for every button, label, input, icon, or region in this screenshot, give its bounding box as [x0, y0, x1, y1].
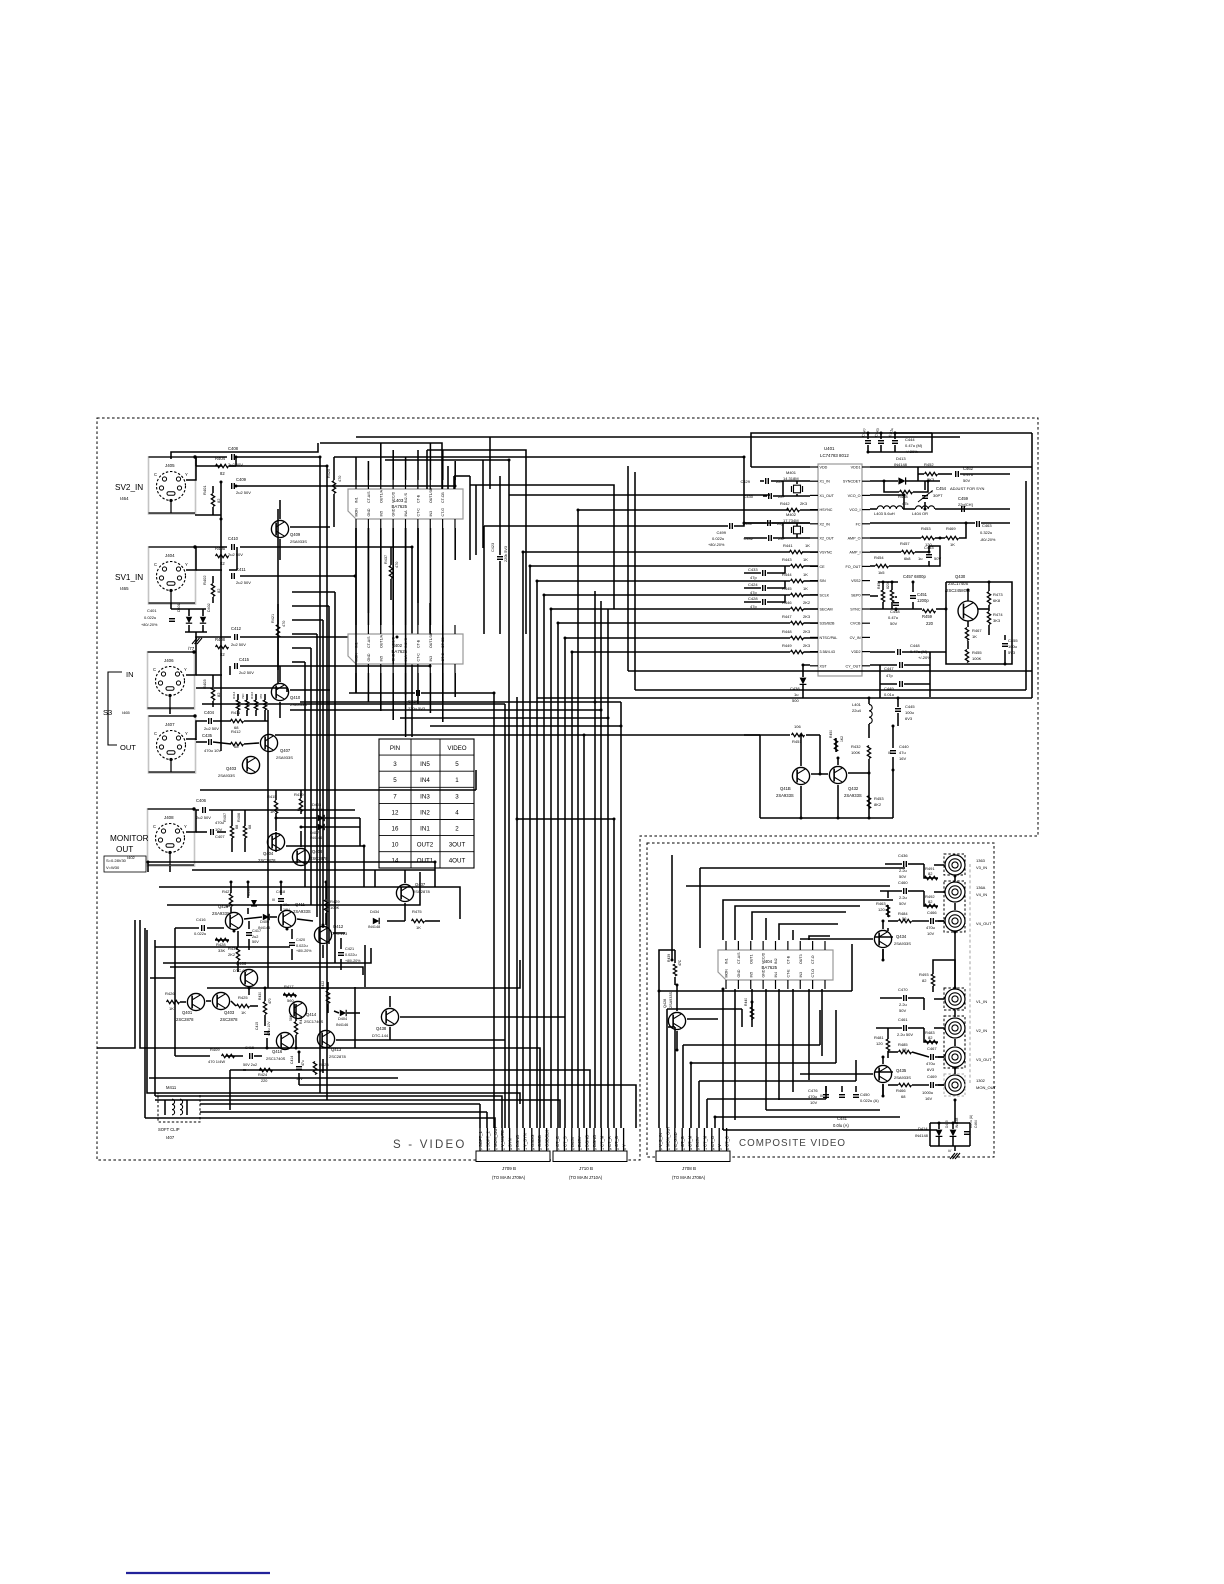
svg-text:OSDB: OSDB [537, 1135, 542, 1147]
svg-text:R432: R432 [851, 744, 861, 749]
svg-text:D45V: D45V [695, 1136, 700, 1147]
connector J708 B [656, 1126, 730, 1180]
svg-text:R421: R421 [271, 614, 275, 623]
resistor R405 [215, 546, 229, 566]
svg-text:470u 10V: 470u 10V [267, 1021, 271, 1036]
resistor R454 [874, 555, 889, 575]
svg-text:OSDCLK: OSDCLK [545, 1130, 550, 1147]
svg-text:82: 82 [928, 1035, 933, 1040]
soft clip coils [165, 1099, 187, 1115]
wire R446 stub [804, 608, 819, 610]
resistor R420 [327, 469, 342, 494]
resistor R453r [921, 526, 935, 547]
monitor out note box [104, 856, 146, 872]
svg-text:BA7625: BA7625 [762, 965, 778, 970]
svg-text:47u: 47u [301, 1060, 305, 1066]
svg-text:1K: 1K [270, 809, 275, 814]
wire bundle v305 [304, 662, 306, 887]
capacitor C435 [202, 733, 221, 753]
wire comp caps1 [875, 864, 944, 960]
RCA jack V3_IN [945, 855, 987, 875]
svg-text:CE: CE [820, 565, 826, 569]
svg-text:C461: C461 [898, 1017, 908, 1022]
svg-text:IN4: IN4 [774, 972, 778, 978]
svg-text:1u: 1u [794, 692, 798, 697]
svg-text:16: 16 [392, 826, 399, 833]
svg-text:R416: R416 [299, 1016, 303, 1024]
resistor R445 [782, 586, 808, 597]
capacitor C461 [897, 1017, 913, 1037]
wire feed y609 [551, 608, 790, 610]
svg-text:R430: R430 [258, 992, 262, 1000]
wire feed y566 [530, 565, 790, 567]
svg-text:3: 3 [455, 793, 459, 800]
wire q410 leads [280, 666, 330, 718]
svg-text:R493: R493 [919, 972, 929, 977]
transistor Q403b [212, 992, 238, 1022]
svg-text:Q416: Q416 [272, 1049, 283, 1054]
svg-text:50V: 50V [963, 478, 970, 483]
svg-text:D401: D401 [177, 603, 181, 612]
svg-text:OUT3: OUT3 [799, 954, 803, 964]
wire mesh v1 [475, 485, 477, 555]
COMPOSITE VIDEO section dashed border [647, 843, 994, 1157]
capacitor C477 [839, 1095, 845, 1098]
transistor Q434 [800, 921, 911, 960]
svg-text:6V3: 6V3 [927, 1067, 935, 1072]
svg-text:IN: IN [126, 670, 134, 679]
wire q409 leads [280, 500, 330, 560]
resistor R437 [384, 555, 399, 579]
svg-text:VDD1: VDD1 [851, 466, 861, 470]
wire quad [238, 694, 265, 721]
svg-text:GND: GND [737, 969, 741, 977]
svg-text:R420: R420 [327, 469, 331, 478]
capacitor C446m [898, 643, 932, 660]
svg-text:1200p: 1200p [917, 598, 929, 603]
svg-text:SOFT CLIP: SOFT CLIP [158, 1127, 180, 1132]
wire bus v6 [550, 609, 552, 1128]
svg-text:2K2: 2K2 [228, 952, 236, 957]
svg-text:Y: Y [184, 667, 187, 672]
connector J710 B [553, 1128, 627, 1180]
wire feed y623 [558, 622, 790, 624]
svg-text:BA7625: BA7625 [392, 504, 408, 509]
svg-text:C499: C499 [716, 530, 726, 535]
svg-text:R457: R457 [900, 541, 910, 546]
svg-text:12: 12 [392, 809, 399, 816]
capacitor C499 [708, 523, 732, 547]
svg-text:CT_S: CT_S [680, 1136, 685, 1147]
svg-text:R447: R447 [782, 614, 792, 619]
svg-text:R440: R440 [744, 998, 748, 1006]
svg-text:R474: R474 [993, 612, 1003, 617]
wire block2 bottom pins [356, 673, 455, 722]
wire feed y460 [385, 459, 509, 461]
wire trunk x320 [319, 457, 321, 1093]
capacitor C451 [910, 592, 929, 603]
svg-text:CT-A/S: CT-A/S [367, 491, 371, 503]
svg-text:CT_C: CT_C [725, 1136, 730, 1147]
wire r421 [277, 604, 279, 670]
svg-text:SOFT_2: SOFT_2 [485, 1131, 490, 1147]
capacitor C430 [743, 493, 785, 499]
resistor R442 [780, 501, 808, 512]
svg-text:MON: MON [355, 508, 359, 517]
wire r458r [884, 481, 928, 492]
wire cvin [870, 651, 946, 653]
capacitor C449b [884, 681, 902, 697]
wire bundle tops [292, 592, 335, 662]
resistor R421 [271, 614, 286, 638]
svg-text:XST: XST [820, 664, 828, 668]
svg-text:1K: 1K [803, 572, 808, 577]
capacitor C411 [232, 567, 252, 585]
svg-text:10: 10 [392, 842, 399, 849]
capacitor C459 [958, 496, 973, 512]
wire ic401 top box [751, 433, 1032, 467]
svg-text:Q428: Q428 [663, 999, 667, 1008]
capacitor C453 [918, 545, 941, 561]
svg-text:CT-B: CT-B [786, 955, 790, 964]
svg-text:DGND: DGND [585, 1135, 590, 1147]
capacitor C455 [1002, 638, 1018, 655]
svg-text:0.022u: 0.022u [296, 944, 308, 948]
resistor R475 [412, 909, 425, 930]
svg-text:CT-B: CT-B [416, 494, 420, 503]
svg-text:SECAM: SECAM [820, 608, 833, 612]
capacitor C443t [874, 428, 884, 452]
svg-text:2u2 50V: 2u2 50V [236, 580, 251, 585]
svg-text:100u: 100u [905, 710, 914, 715]
capacitor C470 [898, 987, 908, 1013]
svg-text:C457 6800p: C457 6800p [903, 574, 926, 579]
wire j708 riser 4 [690, 1063, 692, 1128]
svg-text:V2_IN: V2_IN [976, 1028, 987, 1033]
wire j708 riser 8 [722, 1128, 724, 1130]
transistor Q410 [271, 683, 307, 707]
IC U401 pins [810, 466, 870, 669]
svg-text:OUT1/3B: OUT1/3B [429, 632, 433, 648]
svg-text:50V: 50V [899, 874, 906, 879]
resistor R404 [215, 456, 229, 476]
wire bundle v311 [310, 648, 312, 905]
wire bus v14 [607, 609, 609, 1128]
svg-text:8K2: 8K2 [874, 802, 882, 807]
svg-text:10V: 10V [927, 931, 934, 936]
svg-text:DGND: DGND [592, 1135, 597, 1147]
resistor R485 [898, 1042, 912, 1054]
resistor R458r [898, 490, 913, 506]
wire feed y638 [565, 637, 790, 639]
svg-text:470: 470 [268, 998, 272, 1004]
svg-text:2SC2878: 2SC2878 [413, 889, 430, 894]
svg-text:1K: 1K [241, 1010, 246, 1015]
wire cluster loop a [159, 887, 460, 919]
svg-text:L404 OR: L404 OR [912, 511, 928, 516]
svg-text:2SA933S: 2SA933S [894, 941, 911, 946]
svg-text:V=W30: V=W30 [106, 865, 120, 870]
wire cluster vert m [354, 987, 356, 1048]
svg-text:C421: C421 [345, 947, 354, 951]
svg-text:/77: /77 [188, 646, 195, 651]
wire q428 net [675, 950, 752, 1050]
svg-text:Q403: Q403 [224, 1010, 235, 1015]
svg-text:AMP_I: AMP_I [849, 551, 860, 555]
svg-text:R441: R441 [783, 543, 793, 548]
svg-text:V4_IN: V4_IN [976, 892, 987, 897]
resistor R410 [241, 693, 249, 710]
capacitor C463 [977, 521, 996, 542]
svg-text:V_MUTE: V_MUTE [500, 1130, 505, 1147]
svg-text:1k5: 1k5 [878, 570, 885, 575]
svg-text:2SA933S: 2SA933S [776, 793, 794, 798]
capacitor C404 [204, 710, 219, 731]
wire sv top loop2 [195, 457, 197, 466]
svg-text:CT_M: CT_M [688, 1135, 693, 1147]
svg-text:C435: C435 [202, 733, 213, 738]
wire diode net [171, 609, 207, 638]
svg-text:C423: C423 [491, 543, 495, 552]
svg-text:C450: C450 [860, 1092, 870, 1097]
transistor Q408 [292, 848, 328, 865]
resistor R412 [231, 729, 244, 749]
svg-text:1u: 1u [918, 556, 922, 561]
RCA jack V4_OUT [945, 911, 992, 931]
wire cluster loop g [207, 960, 520, 988]
svg-text:DTC-144: DTC-144 [372, 1033, 389, 1038]
svg-text:R411: R411 [231, 710, 241, 715]
svg-text:6K8: 6K8 [993, 598, 1001, 603]
capacitor C468 [922, 1074, 937, 1101]
diode D414 [915, 1126, 942, 1138]
svg-text:SOFT_1: SOFT_1 [478, 1131, 483, 1147]
svg-text:CV_IN: CV_IN [850, 636, 861, 640]
svg-text:47p: 47p [886, 673, 893, 678]
svg-text:/2SC2458GR: /2SC2458GR [945, 588, 970, 593]
pin/video table [379, 739, 474, 868]
svg-text:C448: C448 [910, 643, 920, 648]
resistor R419 [294, 792, 304, 812]
svg-text:Q409: Q409 [290, 532, 301, 537]
COMPOSITE VIDEO title [739, 1138, 846, 1149]
wire bus v8 [564, 638, 566, 1128]
svg-text:2SA933S: 2SA933S [894, 1075, 911, 1080]
wire bundle v329 [328, 606, 330, 944]
svg-text:2SA933S: 2SA933S [218, 773, 235, 778]
svg-text:GND: GND [392, 508, 396, 516]
wire s3in net [170, 603, 430, 714]
svg-text:GND: GND [367, 653, 371, 661]
capacitor C460 [898, 880, 908, 906]
wire long h668 [628, 466, 1032, 671]
svg-text:2SC2878: 2SC2878 [329, 1054, 346, 1059]
svg-text:R414: R414 [232, 691, 236, 699]
svg-text:R449: R449 [782, 643, 792, 648]
resistor R426 [165, 991, 180, 1011]
diode D404 [336, 1010, 348, 1027]
svg-text:VCC/D: VCC/D [762, 952, 766, 964]
svg-text:M411: M411 [166, 1085, 177, 1090]
svg-text:R448: R448 [782, 629, 792, 634]
svg-text:0.022u: 0.022u [194, 931, 206, 936]
capacitor C440 [888, 726, 909, 770]
svg-text:MON_OUT: MON_OUT [665, 1126, 670, 1147]
jack dashed box v1in [944, 988, 965, 1010]
wire long h698 [537, 433, 1032, 698]
wire cluster1b [175, 882, 345, 972]
svg-text:D45V: D45V [577, 1136, 582, 1147]
svg-text:I407: I407 [166, 1135, 175, 1140]
svg-text:R466: R466 [896, 1088, 906, 1093]
resistor R469 [946, 526, 959, 547]
jack dashed box v2v3 [944, 1016, 965, 1068]
svg-text:1: 1 [455, 777, 459, 784]
svg-text:47C: 47C [678, 959, 682, 966]
svg-text:0.47u: 0.47u [888, 615, 898, 620]
svg-text:MON: MON [725, 969, 729, 978]
svg-text:III: III [272, 898, 275, 902]
RCA jack V4_IN [945, 882, 987, 902]
wire cluster2 [175, 870, 440, 1085]
svg-text:X2_IN: X2_IN [820, 522, 831, 526]
svg-text:C451: C451 [917, 592, 928, 597]
resistor R428 [216, 938, 229, 953]
svg-text:OUT1: OUT1 [749, 954, 753, 964]
label C444 [905, 437, 923, 454]
svg-text:10: 10 [546, 1147, 550, 1151]
svg-text:R406: R406 [237, 813, 241, 822]
svg-text:C436: C436 [898, 853, 908, 858]
svg-text:50V: 50V [899, 1008, 906, 1013]
svg-text:R473: R473 [993, 592, 1003, 597]
S - VIDEO title [393, 1139, 466, 1151]
transistor Q413 [317, 1030, 346, 1059]
resistor R449 [782, 643, 811, 654]
wire bus v9 [571, 652, 573, 1128]
connector J408 MONITOR OUT [148, 807, 196, 866]
svg-text:0.01u: 0.01u [884, 692, 894, 697]
wire jog y819 [517, 819, 614, 1128]
svg-text:X1_IN: X1_IN [820, 480, 831, 484]
svg-text:(TO MAIN J709A): (TO MAIN J709A) [492, 1175, 526, 1180]
svg-text:J407: J407 [165, 722, 175, 727]
wire cluster top1 [275, 832, 277, 852]
resistor R425 [237, 995, 250, 1015]
diode D413 [894, 456, 908, 485]
svg-text:C408: C408 [228, 446, 239, 451]
wire sv top loop1 [171, 443, 318, 459]
wire top bus3 [356, 436, 960, 438]
diode D426 [247, 888, 257, 906]
svg-text:1K: 1K [416, 925, 421, 930]
svg-text:IN2 /S: IN2 /S [404, 492, 408, 503]
svg-text:30PT: 30PT [933, 493, 943, 498]
wire mesh v4 [453, 476, 455, 489]
svg-text:C469: C469 [927, 1074, 937, 1079]
wire bus v7 [557, 623, 559, 1128]
wire cluster loop l [374, 870, 376, 887]
svg-text:2K3: 2K3 [803, 629, 811, 634]
svg-text:68: 68 [248, 825, 252, 829]
capacitor C418 [272, 890, 290, 912]
svg-text:2.2u: 2.2u [899, 895, 907, 900]
diode D402 [200, 603, 211, 623]
svg-text:SV2_IN: SV2_IN [115, 483, 143, 492]
capacitor C410 [228, 536, 243, 557]
svg-text:C466: C466 [927, 910, 937, 915]
svg-text:I465: I465 [120, 586, 129, 591]
svg-text:I464: I464 [120, 496, 129, 501]
svg-text:NTSC/PAL: NTSC/PAL [820, 636, 838, 640]
svg-text:47k: 47k [902, 501, 908, 506]
svg-text:470: 470 [395, 562, 399, 568]
svg-text:1K: 1K [805, 543, 810, 548]
svg-text:0.022u: 0.022u [144, 615, 156, 620]
svg-text:2SC1740S: 2SC1740S [304, 1019, 324, 1024]
diode D415 [945, 1117, 959, 1136]
wire R448 stub [804, 637, 819, 639]
svg-text:Q435: Q435 [896, 1068, 907, 1073]
wire R443 stub [804, 565, 819, 567]
svg-text:1K: 1K [169, 1006, 174, 1011]
svg-text:X2_OUT: X2_OUT [820, 537, 835, 541]
wire cluster loop d [155, 946, 290, 948]
svg-text:CVCB: CVCB [850, 622, 861, 626]
resistor R439 [667, 954, 682, 976]
svg-text:C440: C440 [899, 744, 909, 749]
wire top bus1 [320, 443, 442, 489]
resistor R456b [886, 580, 894, 602]
svg-text:III: III [820, 1094, 823, 1098]
svg-text:IN1: IN1 [725, 958, 729, 964]
trimmer C454 [918, 486, 984, 502]
resistor R407 [223, 813, 239, 838]
capacitor C436 [898, 853, 908, 879]
inductor L401 [852, 698, 872, 738]
svg-text:M402: M402 [786, 512, 797, 517]
wire s3out net [186, 721, 268, 744]
wire bus v12 [594, 591, 596, 1128]
svg-text:D406: D406 [260, 920, 269, 924]
jack leader dashes [969, 864, 971, 1085]
capacitor C432 [743, 535, 785, 541]
wire feed y652 [572, 651, 790, 653]
resistor R401 [202, 485, 221, 507]
svg-text:C428: C428 [748, 596, 758, 601]
IC I404 BA7625 [718, 941, 833, 989]
svg-text:100K: 100K [972, 656, 982, 661]
wire bus v11 [493, 693, 495, 1128]
svg-text:MON_OUT: MON_OUT [493, 1126, 498, 1147]
svg-text:OUT1/3B: OUT1/3B [429, 487, 433, 503]
resistor R424 [258, 1068, 273, 1083]
svg-text:VCO_O: VCO_O [848, 494, 861, 498]
jack dashed box v3in [944, 854, 965, 875]
wire bus jog x614 [470, 485, 614, 609]
svg-text:D434: D434 [370, 910, 379, 914]
svg-text:4OUT: 4OUT [449, 858, 466, 865]
wire long h690 [635, 472, 1026, 690]
svg-text:2SA933S: 2SA933S [212, 911, 230, 916]
svg-text:VSS2: VSS2 [851, 579, 860, 583]
svg-text:(TO MAIN J708A): (TO MAIN J708A) [672, 1175, 706, 1180]
svg-text:2SA933S: 2SA933S [276, 755, 293, 760]
svg-text:CT-C: CT-C [416, 508, 420, 517]
RCA jack V3_OUT [945, 1047, 992, 1067]
wire d413 [870, 480, 940, 482]
resistor R427 [222, 889, 233, 908]
